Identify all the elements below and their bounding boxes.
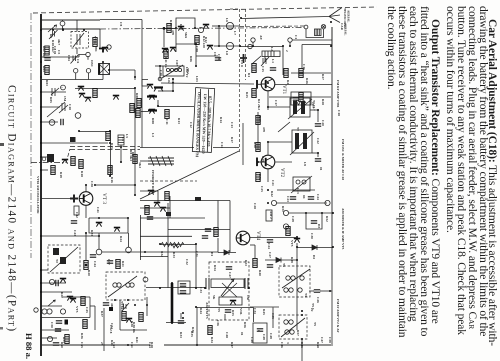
svg-text:R19: R19	[59, 172, 63, 178]
svg-text:C38: C38	[90, 181, 94, 187]
transistor VT04c	[113, 96, 119, 100]
svg-text:5K: 5K	[212, 295, 216, 300]
capacitor C48	[225, 310, 231, 312]
svg-text:R57: R57	[296, 330, 300, 336]
capacitor C47	[226, 267, 232, 269]
wire y107	[41, 106, 60, 108]
node e	[107, 45, 111, 49]
transformer secondary	[219, 297, 242, 305]
svg-text:C9: C9	[119, 22, 123, 26]
node 1b	[61, 86, 63, 88]
wire VT1 down	[267, 91, 269, 103]
svg-text:R26: R26	[305, 78, 309, 84]
node 2	[60, 21, 65, 26]
svg-text:R11 1K: R11 1K	[164, 57, 168, 68]
trimmer C18	[59, 103, 68, 113]
capacitor C46	[180, 291, 186, 293]
transistor VT2b	[170, 48, 176, 52]
svg-text:01: 01	[319, 167, 323, 171]
wire y88	[75, 88, 135, 90]
divider dashes lower	[70, 149, 140, 151]
wire y70	[110, 69, 136, 71]
label box left	[266, 210, 272, 221]
wire top y20	[41, 19, 100, 21]
svg-text:L03: L03	[195, 76, 199, 82]
svg-text:R10: R10	[169, 20, 173, 26]
svg-text:R52: R52	[325, 216, 329, 222]
VT2 emitter bar	[256, 158, 258, 167]
svg-text:465: 465	[110, 303, 114, 308]
resistor R39b	[139, 313, 143, 322]
transistor VT6	[230, 301, 236, 305]
wire y46 to coil	[214, 45, 226, 47]
svg-text:FM OSC & MIXER AF C18: FM OSC & MIXER AF C18	[341, 139, 345, 180]
svg-text:C28: C28	[253, 203, 257, 209]
svg-text:C51: C51	[130, 342, 134, 348]
wire x140	[140, 215, 142, 260]
wire y306	[41, 305, 62, 307]
box C49	[253, 323, 267, 343]
L13 coils	[296, 180, 300, 184]
svg-text:R25: R25	[245, 92, 249, 98]
oscillator coil box L2	[163, 66, 184, 76]
svg-text:R45: R45	[262, 309, 266, 315]
svg-text:C47: C47	[228, 272, 232, 278]
dark rect cluster	[166, 212, 171, 216]
transistor VT2	[261, 155, 275, 169]
wire VT2 base	[258, 161, 262, 163]
svg-text:AERIAL: AERIAL	[344, 23, 348, 35]
svg-text:R28: R28	[321, 99, 325, 105]
wire x318	[317, 110, 319, 122]
coil turns L2	[166, 68, 169, 71]
capacitor C12	[61, 119, 63, 125]
node M	[47, 336, 52, 341]
svg-text:C18: C18	[68, 104, 72, 110]
node o	[198, 27, 203, 32]
svg-text:C21: C21	[271, 180, 275, 186]
node N	[60, 309, 65, 314]
node E	[96, 249, 102, 255]
wire y236	[41, 235, 99, 237]
wire x158	[157, 191, 159, 203]
node G	[283, 210, 288, 215]
svg-text:VT 3: VT 3	[101, 193, 107, 204]
wire stub R19	[41, 169, 48, 171]
wire x128-f	[128, 233, 130, 247]
connector circle bus	[42, 157, 46, 161]
transistor VT05b legs	[154, 88, 163, 92]
svg-text:C45: C45	[85, 307, 89, 313]
stub p	[252, 42, 254, 46]
resistor R16	[108, 166, 112, 175]
svg-text:C29: C29	[291, 216, 295, 222]
svg-text:T5: T5	[313, 322, 317, 326]
wire VT1 to T1	[268, 106, 290, 108]
trimmer C15	[261, 57, 269, 66]
node F	[126, 247, 132, 253]
transistor VT01 glyph	[99, 49, 103, 53]
node m	[49, 279, 54, 284]
wire diag C14	[252, 56, 261, 64]
svg-text:C18: C18	[337, 110, 341, 116]
capacitor C45b	[180, 284, 186, 286]
wire y142	[268, 141, 292, 143]
svg-text:C07: C07	[175, 60, 179, 66]
AM osc transformer dashed box	[48, 245, 80, 273]
resistor R21	[116, 260, 120, 269]
capacitor C23	[308, 197, 314, 199]
wire y306b	[90, 305, 95, 307]
svg-text:R32: R32	[160, 251, 164, 257]
wire y322	[166, 322, 186, 324]
transistor VT09	[154, 203, 160, 207]
resistor R14	[130, 104, 134, 113]
aerial dash line upper	[240, 25, 304, 28]
U loop under connectors	[306, 29, 324, 38]
svg-text:the cooling action.: the cooling action.	[385, 6, 397, 90]
wire y283	[41, 282, 66, 284]
coil T3a	[113, 283, 117, 287]
T1 dark edge	[98, 64, 100, 75]
trimmer C3	[51, 88, 59, 96]
car aerial connector	[321, 25, 325, 29]
svg-text:R5: R5	[49, 34, 53, 38]
wire y97	[269, 96, 331, 98]
svg-text:C35: C35	[271, 313, 275, 319]
wire y198	[41, 198, 70, 200]
wire x330	[331, 280, 333, 346]
wire y307b	[197, 307, 253, 309]
resistor R62	[214, 228, 218, 237]
wire x147	[146, 297, 148, 316]
T6 coil b	[300, 276, 304, 280]
svg-text:25: 25	[100, 342, 104, 346]
wire y92	[41, 91, 66, 93]
wire VT3 emitter down	[85, 205, 87, 218]
resistor R15	[106, 132, 110, 141]
resistor R24	[252, 64, 256, 73]
capacitor C26	[314, 290, 320, 292]
svg-text:C30: C30	[310, 233, 314, 239]
svg-text:C49: C49	[262, 334, 266, 340]
wire: bottom earth line	[41, 344, 150, 346]
capacitor C54	[53, 343, 59, 345]
wire y288	[146, 287, 205, 289]
svg-text:FM RF AMP VT01: FM RF AMP VT01	[336, 80, 340, 108]
wire x302	[301, 45, 303, 69]
svg-text:R44: R44	[199, 308, 203, 314]
wire VT2 to T2f	[267, 142, 269, 155]
svg-text:D1: D1	[210, 252, 214, 256]
diag switch FM	[278, 122, 290, 132]
svg-text:C37: C37	[107, 259, 111, 265]
svg-text:C20: C20	[321, 120, 325, 126]
wire y57	[41, 56, 79, 58]
svg-text:C31: C31	[195, 251, 199, 257]
wire: aerial feed y29	[41, 28, 100, 30]
resistor R19	[51, 166, 55, 175]
resistor R18	[79, 160, 83, 169]
node dot y29	[62, 28, 64, 30]
wire y245b	[250, 244, 255, 246]
trimmer C57	[122, 303, 129, 311]
T6 coil a	[286, 276, 290, 280]
svg-text:L02: L02	[167, 78, 171, 84]
svg-text:CAR: CAR	[340, 23, 344, 31]
coil L5	[118, 135, 124, 145]
svg-text:R37: R37	[100, 311, 104, 317]
svg-text:C34: C34	[253, 308, 257, 314]
VT1 emitter bar	[256, 80, 258, 89]
wire aerial down	[331, 27, 333, 46]
svg-text:AM/FM T5: AM/FM T5	[205, 302, 209, 319]
svg-text:VT1: VT1	[281, 85, 286, 95]
left dash-dot border	[30, 13, 32, 258]
node p	[251, 38, 255, 42]
svg-text:R42: R42	[270, 191, 274, 197]
wire y218b	[140, 217, 205, 219]
wire x86	[85, 233, 87, 260]
IF transformer box T2f	[292, 130, 312, 153]
wire gang stub down	[76, 48, 78, 54]
wire b stub	[79, 55, 86, 58]
wire y155	[41, 156, 47, 158]
transistor VT4a	[60, 279, 66, 283]
wire x218	[217, 201, 219, 228]
svg-text:22: 22	[310, 308, 314, 312]
resistor R30	[256, 143, 260, 152]
svg-text:R46: R46	[300, 342, 304, 348]
wire y44.5	[302, 44, 332, 46]
svg-text:C8 01: C8 01	[53, 46, 57, 55]
transistor VT04d	[62, 160, 68, 164]
svg-text:R35: R35	[190, 331, 194, 337]
node F2	[283, 224, 288, 229]
wire x210	[209, 325, 211, 326]
resistor R12	[195, 36, 199, 45]
transformer T1	[99, 64, 110, 75]
transistor pair bar	[154, 86, 163, 88]
svg-text:VT01: VT01	[93, 36, 97, 44]
wire x120	[119, 300, 121, 330]
L1 hatch	[265, 51, 274, 57]
svg-text:R53: R53	[244, 260, 248, 266]
transistor VT06	[149, 96, 155, 100]
diode D1b	[224, 250, 229, 255]
resistor R01	[93, 38, 97, 47]
section divider dash-dot	[31, 162, 66, 164]
zigzag resistor R32	[161, 243, 172, 247]
transistor VT3	[79, 192, 93, 206]
wire x168 long	[167, 203, 169, 288]
transistor VT07 bar	[148, 109, 157, 111]
svg-text:470: 470	[262, 127, 266, 132]
capacitor C43	[71, 221, 77, 223]
capacitor C05	[44, 58, 50, 60]
capacitor C61	[205, 229, 211, 231]
ferrite rod hatch	[150, 156, 172, 166]
svg-text:OSCILLATOR DRIVE RANGES FM: OSCILLATOR DRIVE RANGES FM	[195, 92, 202, 157]
capacitor C16	[270, 68, 276, 70]
transistor VT9	[70, 299, 76, 303]
loop rect	[265, 47, 283, 76]
svg-text:L9: L9	[303, 162, 307, 166]
svg-text:T02: T02	[186, 68, 190, 74]
wire x320	[320, 290, 332, 292]
wire x164 down	[163, 28, 165, 47]
svg-text:R47: R47	[230, 342, 234, 348]
wire VT2 down	[267, 169, 269, 182]
capacitor C24	[267, 240, 273, 242]
resistor R60	[165, 192, 169, 201]
svg-text:C49: C49	[250, 337, 254, 343]
capacitor C20	[315, 124, 321, 126]
wire y56	[196, 55, 218, 57]
node P	[143, 277, 148, 282]
wire y110b	[310, 109, 318, 111]
resistor R34	[208, 326, 212, 335]
svg-text:R4: R4	[286, 80, 290, 84]
svg-text:R33: R33	[172, 252, 176, 258]
svg-text:C32: C32	[185, 259, 189, 265]
ferrite rod MW coil	[148, 158, 174, 164]
resistor R40	[253, 259, 257, 268]
wire stubs c d	[76, 57, 89, 80]
svg-text:VT2: VT2	[279, 168, 284, 178]
node O	[271, 200, 276, 205]
T2f coil b	[303, 133, 307, 149]
divider dashes upper	[70, 146, 140, 148]
svg-text:4K7: 4K7	[57, 39, 61, 45]
T1 coil a	[293, 101, 297, 114]
wire y91	[158, 90, 173, 92]
wire x135	[134, 89, 136, 196]
wire y190	[277, 189, 315, 191]
svg-text:R38: R38	[130, 321, 134, 327]
switch S3	[48, 300, 55, 306]
wire y46	[240, 46, 283, 48]
transistor VT10	[160, 208, 166, 212]
divider step	[66, 149, 70, 163]
wire y28	[164, 27, 176, 29]
transistor VT2a	[178, 27, 184, 31]
wire x160	[159, 66, 161, 80]
T5 coil b	[285, 330, 289, 334]
wire x218b	[217, 238, 219, 253]
transistor VT4	[236, 231, 250, 245]
resistor R28	[299, 93, 303, 102]
svg-text:R39: R39	[290, 257, 294, 263]
svg-text:R23: R23	[90, 230, 94, 236]
section divider line	[331, 27, 333, 280]
node d	[86, 69, 90, 73]
dashed top corner	[230, 8, 240, 10]
svg-text:R03: R03	[42, 66, 46, 72]
wire x196b	[195, 245, 197, 289]
wire y208	[140, 207, 170, 209]
component value labels scatter	[45, 18, 341, 348]
T5 coil a	[284, 320, 288, 324]
svg-text:R48: R48	[150, 342, 154, 348]
transformer T01 core	[47, 154, 54, 162]
zigzag resistor R33	[173, 243, 184, 247]
wire y245	[160, 244, 196, 246]
svg-text:VT04 AM OSCILLATOR: VT04 AM OSCILLATOR	[36, 176, 40, 214]
capacitor C39	[202, 236, 208, 238]
coil Lb	[226, 42, 233, 49]
IF transformer T3 dashed box	[106, 272, 145, 300]
svg-text:L3: L3	[151, 133, 155, 137]
resistor R37	[65, 335, 69, 344]
pot end bracket R	[245, 278, 248, 289]
svg-text:C50: C50	[50, 322, 54, 328]
node H2	[325, 200, 330, 205]
top dashed border	[33, 7, 377, 13]
T6 arrow	[282, 269, 310, 288]
svg-text:C10: C10	[159, 70, 163, 76]
wire: main supply bus	[40, 14, 42, 356]
node q	[288, 38, 292, 42]
svg-text:R50: R50	[60, 342, 64, 348]
node L	[47, 309, 52, 314]
node B	[75, 113, 81, 119]
resistor R29	[256, 116, 260, 125]
table pointer diagonal	[140, 151, 239, 199]
svg-text:VT5: VT5	[290, 240, 294, 247]
switch S2	[47, 102, 65, 117]
svg-text:R22: R22	[60, 292, 64, 298]
wire x273	[272, 308, 274, 329]
dash-dot aerial line	[100, 28, 304, 30]
svg-text:occurs within four turns of ma: occurs within four turns of maximum capa…	[444, 6, 456, 233]
wire corner top	[100, 19, 142, 21]
wire y330	[41, 329, 69, 331]
thick rail	[171, 283, 174, 323]
svg-text:T2: T2	[296, 127, 300, 131]
svg-text:R34: R34	[210, 337, 214, 343]
node b	[86, 52, 90, 56]
svg-text:R12: R12	[204, 37, 208, 43]
wire y213	[289, 212, 333, 214]
svg-text:C59: C59	[328, 337, 332, 343]
coupling box	[178, 281, 190, 294]
transistor VT05a	[147, 85, 153, 89]
wire x230	[229, 201, 231, 253]
coil T3b	[126, 283, 130, 287]
edge mark left lower	[0, 327, 3, 330]
transistor VT5 glyph	[294, 239, 300, 243]
wire x219	[218, 26, 220, 46]
transistor VT04b	[85, 98, 91, 102]
wire y160	[312, 152, 318, 154]
capacitor C22	[290, 197, 296, 199]
svg-text:R24: R24	[119, 236, 123, 242]
trimmer C04	[71, 55, 79, 64]
resistor R02	[45, 46, 49, 55]
arrow T3	[108, 276, 137, 297]
svg-text:T2: T2	[55, 259, 59, 263]
transistor VT3b	[96, 223, 102, 227]
detector loop	[306, 213, 322, 229]
node K	[42, 309, 47, 314]
svg-text:T01: T01	[94, 46, 98, 52]
node A	[49, 120, 55, 126]
label box C42	[74, 206, 79, 215]
svg-text:C08: C08	[195, 46, 199, 52]
svg-text:C09: C09	[217, 54, 221, 60]
wire y98 link	[267, 103, 269, 110]
